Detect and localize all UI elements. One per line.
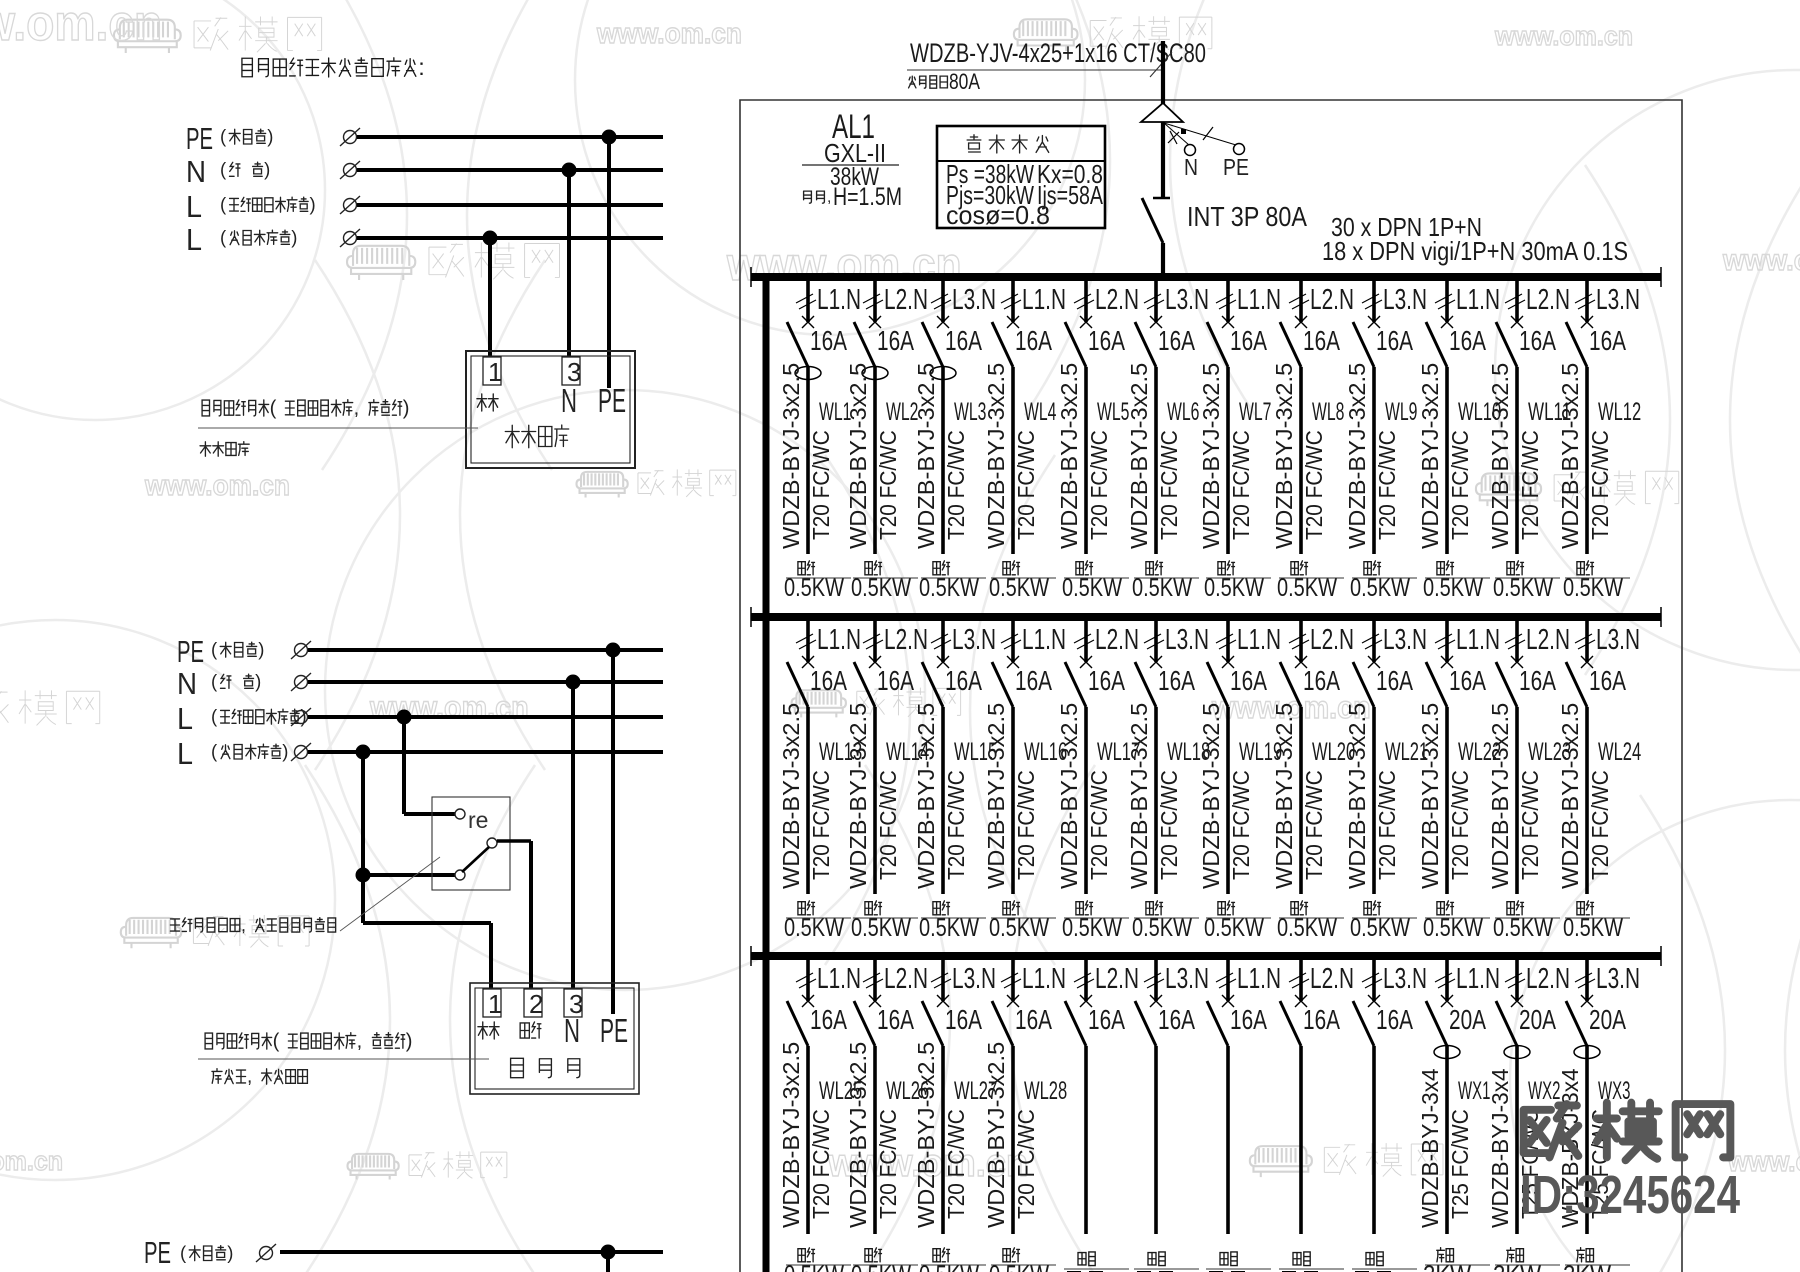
wire WL26 (873, 1046, 877, 1234)
branch WL9: stub + phase L3.N (1372, 280, 1376, 322)
breaker WL25 16A (802, 995, 814, 1007)
svg-text:WDZB-BYJ-3x2.5: WDZB-BYJ-3x2.5 (1271, 363, 1297, 549)
svg-text:,: , (357, 1030, 363, 1052)
load label 照明 0.5KW (1218, 902, 1225, 915)
svg-text:16A: 16A (810, 665, 847, 696)
svg-text:0.5KW: 0.5KW (989, 914, 1049, 942)
svg-text:2KW: 2KW (1493, 1261, 1541, 1272)
RCD ellipse WL2 (862, 367, 888, 380)
breaker WL24 16A (1581, 656, 1593, 668)
svg-text:T20 FC/WC: T20 FC/WC (875, 430, 901, 540)
svg-text:(: ( (220, 194, 227, 215)
svg-text:0.5KW: 0.5KW (989, 574, 1049, 602)
svg-text:0.5KW: 0.5KW (1132, 914, 1192, 942)
svg-text:): ) (309, 194, 315, 215)
svg-text:L2.N: L2.N (1310, 284, 1354, 316)
branch WL15: stub + phase L3.N (941, 620, 945, 662)
relay output wire (497, 839, 531, 843)
RCD ellipse WL3 (930, 367, 956, 380)
breaker spare 16A (1080, 995, 1092, 1007)
arrester triangle (1141, 103, 1183, 122)
svg-text:0.5KW: 0.5KW (1204, 574, 1264, 602)
svg-text:16A: 16A (945, 665, 982, 696)
load label 照明 0.5KW (865, 902, 872, 915)
main breaker lower wire (1161, 243, 1165, 279)
svg-text:T20 FC/WC: T20 FC/WC (808, 770, 834, 880)
spare label 备用 (1148, 1253, 1156, 1265)
breaker WL1 16A (802, 316, 814, 328)
svg-text:WDZB-BYJ-3x2.5: WDZB-BYJ-3x2.5 (1271, 703, 1297, 889)
L terminal symbol (340, 229, 360, 247)
main breaker top terminal (1153, 197, 1170, 200)
branch WL2: stub + phase L2.N (873, 280, 877, 322)
breaker spare 16A (1222, 995, 1234, 1007)
PE terminal symbol (340, 128, 360, 146)
breaker WL2 16A (869, 316, 881, 328)
L terminal symbol (291, 708, 311, 726)
svg-text:16A: 16A (1376, 325, 1413, 356)
wire spare (1154, 1046, 1158, 1234)
svg-text:): ) (267, 126, 273, 147)
L wire (357, 203, 663, 207)
load label 照明 0.5KW (1364, 562, 1371, 575)
wire WL15 (941, 707, 945, 894)
svg-text:16A: 16A (1449, 665, 1486, 696)
svg-text:16A: 16A (1589, 325, 1626, 356)
breaker WL6 16A (1150, 316, 1162, 328)
svg-text:www.om.cn: www.om.cn (369, 690, 529, 725)
svg-text:16A: 16A (1158, 1004, 1195, 1035)
svg-text:): ) (291, 227, 297, 248)
breaker WX1 20A (1441, 995, 1453, 1007)
svg-text:L1.N: L1.N (1022, 624, 1066, 656)
svg-text:16A: 16A (1376, 1004, 1413, 1035)
branch WL25: stub + phase L1.N (806, 959, 810, 1001)
svg-text:0.5KW: 0.5KW (1563, 914, 1623, 942)
svg-text:H=1.5M: H=1.5M (833, 183, 902, 211)
load label 照明 0.5KW (865, 562, 872, 575)
svg-text:16A: 16A (877, 665, 914, 696)
diagram1 junction dots (602, 130, 617, 145)
diagram2 junction dots (606, 643, 621, 658)
svg-text:0.5KW: 0.5KW (1493, 914, 1553, 942)
svg-text:16A: 16A (1449, 325, 1486, 356)
relay contact circles (455, 809, 497, 880)
svg-text:www.om.cn: www.om.cn (596, 18, 742, 50)
site logo 欧模网 (1524, 1103, 1731, 1161)
svg-text:16A: 16A (1015, 325, 1052, 356)
wire WL2 (873, 367, 877, 554)
relay box re (432, 797, 510, 890)
svg-text:L2.N: L2.N (1310, 624, 1354, 656)
wire WL23 (1515, 707, 1519, 894)
branch spare: stub + phase L1.N (1226, 959, 1230, 1001)
N wire (357, 168, 663, 172)
branch WL6: stub + phase L3.N (1154, 280, 1158, 322)
svg-text:N: N (564, 1012, 580, 1049)
terminal 1 (483, 357, 501, 385)
svg-text:T20 FC/WC: T20 FC/WC (1447, 430, 1473, 540)
load label 照明 0.5KW (865, 1249, 872, 1262)
svg-text:L1.N: L1.N (1456, 284, 1500, 316)
svg-text:16A: 16A (1589, 665, 1626, 696)
svg-text:PE: PE (186, 121, 213, 156)
breaker WX2 20A (1511, 995, 1523, 1007)
PE terminal circle (1234, 144, 1245, 155)
svg-text:T20 FC/WC: T20 FC/WC (943, 770, 969, 880)
breaker WL7 16A (1222, 316, 1234, 328)
wire WX1 (1445, 1046, 1449, 1234)
breaker WL12 16A (1581, 316, 1593, 328)
svg-text:0.5KW: 0.5KW (851, 914, 911, 942)
branch WL14: stub + phase L2.N (873, 620, 877, 662)
panel border (740, 100, 1682, 1272)
svg-text:L2.N: L2.N (1095, 963, 1139, 995)
label 控制 (520, 1023, 529, 1038)
branch WX1: stub + phase L1.N (1445, 959, 1449, 1001)
svg-text:0.5KW: 0.5KW (1423, 914, 1483, 942)
svg-text:L2.N: L2.N (1526, 284, 1570, 316)
wire WL17 (1084, 707, 1088, 894)
svg-text::: : (418, 54, 425, 80)
svg-text:): ) (264, 159, 270, 180)
svg-text:T20 FC/WC: T20 FC/WC (808, 1109, 834, 1219)
branch WL16: stub + phase L1.N (1011, 620, 1015, 662)
svg-text:0.5KW: 0.5KW (851, 574, 911, 602)
load calc box 负荷计算 (937, 126, 1105, 228)
svg-text:(: ( (211, 741, 218, 762)
wire WL19 (1226, 707, 1230, 894)
svg-text:www.om.cn: www.om.cn (144, 470, 290, 502)
load label 照明 0.5KW (1003, 1249, 1010, 1262)
svg-text:16A: 16A (1015, 1004, 1052, 1035)
diagram1 drop wires (607, 137, 611, 388)
svg-text:0.5KW: 0.5KW (1350, 574, 1410, 602)
svg-text:WDZB-BYJ-3x4: WDZB-BYJ-3x4 (1417, 1068, 1443, 1228)
breaker WX3 20A (1581, 995, 1593, 1007)
svg-text:0.5KW: 0.5KW (1132, 574, 1192, 602)
relay switch blade (462, 847, 489, 872)
svg-text:T20 FC/WC: T20 FC/WC (1156, 430, 1182, 540)
breaker spare 16A (1368, 995, 1380, 1007)
svg-text:L2.N: L2.N (884, 963, 928, 995)
svg-text:INT 3P 80A: INT 3P 80A (1187, 201, 1307, 232)
branch WL26: stub + phase L2.N (873, 959, 877, 1001)
svg-text:T20 FC/WC: T20 FC/WC (1587, 430, 1613, 540)
terminal 3 (562, 357, 580, 385)
load label 插座 2KW (1437, 1248, 1445, 1262)
svg-text:L1.N: L1.N (817, 624, 861, 656)
svg-text:2KW: 2KW (1563, 1261, 1611, 1272)
svg-text:T25 FC/WC: T25 FC/WC (1447, 1109, 1473, 1219)
wire WL1 (806, 367, 810, 554)
svg-text:(: ( (270, 397, 277, 419)
svg-text:WL6: WL6 (1167, 398, 1199, 426)
load label 照明 0.5KW (1146, 902, 1153, 915)
N terminal circle (1185, 145, 1196, 156)
svg-text:WL4: WL4 (1024, 398, 1056, 426)
svg-text:WDZB-BYJ-3x2.5: WDZB-BYJ-3x2.5 (913, 703, 939, 889)
branch WL1: stub + phase L1.N (806, 280, 810, 322)
riser wire (763, 277, 770, 1272)
breaker WL22 16A (1441, 656, 1453, 668)
svg-text:WDZB-BYJ-3x2.5: WDZB-BYJ-3x2.5 (983, 1042, 1009, 1228)
mounting 暗装,H=1.5M (804, 191, 812, 203)
svg-text:(: ( (180, 1242, 187, 1263)
svg-text:WDZB-BYJ-3x2.5: WDZB-BYJ-3x2.5 (1557, 703, 1583, 889)
diagram2 drop wires (611, 650, 615, 1014)
svg-text:0.5KW: 0.5KW (1062, 574, 1122, 602)
svg-text:0.5KW: 0.5KW (1204, 914, 1264, 942)
annotation 应急照明灯具(自带备用电池,三线制) (205, 1033, 212, 1049)
svg-text:T20 FC/WC: T20 FC/WC (1447, 770, 1473, 880)
RCD ellipse WX1 (1434, 1046, 1460, 1059)
label 充电 (478, 1022, 488, 1039)
N wire (308, 680, 663, 684)
label 前级整定80A (909, 76, 916, 88)
wire WL14 (873, 707, 877, 894)
svg-text:WDZB-BYJ-3x2.5: WDZB-BYJ-3x2.5 (778, 1042, 804, 1228)
N terminal symbol (291, 673, 311, 691)
wire spare (1084, 1046, 1088, 1234)
spare label 备用 (1366, 1253, 1374, 1265)
svg-text:T20 FC/WC: T20 FC/WC (1228, 430, 1254, 540)
svg-text:16A: 16A (877, 325, 914, 356)
wire WL28 (1011, 1046, 1015, 1234)
svg-text:L1.N: L1.N (1022, 284, 1066, 316)
breaker WL17 16A (1080, 656, 1092, 668)
svg-text:0.5KW: 0.5KW (1493, 574, 1553, 602)
svg-text:): ) (258, 639, 264, 660)
branch WL20: stub + phase L2.N (1299, 620, 1303, 662)
svg-text:L1.N: L1.N (817, 284, 861, 316)
L wire (308, 715, 663, 719)
svg-text:16A: 16A (1303, 1004, 1340, 1035)
wire WL8 (1299, 367, 1303, 554)
branch WL7: stub + phase L1.N (1226, 280, 1230, 322)
load label 照明 0.5KW (798, 1249, 805, 1262)
RCD ellipse WX2 (1504, 1046, 1530, 1059)
svg-text:re: re (468, 807, 488, 833)
svg-text:L2.N: L2.N (1310, 963, 1354, 995)
svg-text:WDZB-BYJ-3x2.5: WDZB-BYJ-3x2.5 (1056, 363, 1082, 549)
svg-text:T20 FC/WC: T20 FC/WC (1301, 430, 1327, 540)
svg-text:WL28: WL28 (1024, 1077, 1067, 1105)
svg-text:WDZB-BYJ-3x2.5: WDZB-BYJ-3x2.5 (845, 1042, 871, 1228)
svg-text:0.5KW: 0.5KW (851, 1261, 911, 1272)
svg-text:L3.N: L3.N (1165, 284, 1209, 316)
main breaker INT 3P 80A blade (1142, 198, 1163, 243)
svg-text:L3.N: L3.N (1383, 284, 1427, 316)
svg-text:L2.N: L2.N (1526, 624, 1570, 656)
svg-text:WDZB-BYJ-3x2.5: WDZB-BYJ-3x2.5 (1056, 703, 1082, 889)
wire spare (1226, 1046, 1230, 1234)
svg-text:WDZB-BYJ-3x2.5: WDZB-BYJ-3x2.5 (1487, 703, 1513, 889)
svg-text:L: L (177, 736, 193, 771)
breaker WL23 16A (1511, 656, 1523, 668)
svg-text:WDZB-BYJ-3x2.5: WDZB-BYJ-3x2.5 (1487, 363, 1513, 549)
svg-text:16A: 16A (1376, 665, 1413, 696)
wire WL13 (806, 707, 810, 894)
svg-text:L1.N: L1.N (1237, 624, 1281, 656)
svg-text:16A: 16A (877, 1004, 914, 1035)
svg-text:(: ( (211, 671, 218, 692)
svg-text:WDZB-BYJ-3x2.5: WDZB-BYJ-3x2.5 (1417, 703, 1443, 889)
load label 照明 0.5KW (1146, 562, 1153, 575)
svg-text:L3.N: L3.N (1165, 624, 1209, 656)
load label 照明 0.5KW (933, 1249, 940, 1262)
svg-text:ID:3245624: ID:3245624 (1520, 1165, 1740, 1225)
breaker WL16 16A (1007, 656, 1019, 668)
incoming main wire (1161, 41, 1165, 198)
svg-text:(: ( (273, 1030, 280, 1052)
branch WL27: stub + phase L3.N (941, 959, 945, 1001)
breaker WL9 16A (1368, 316, 1380, 328)
svg-text:T20 FC/WC: T20 FC/WC (1587, 770, 1613, 880)
branch WL17: stub + phase L2.N (1084, 620, 1088, 662)
branch WL21: stub + phase L3.N (1372, 620, 1376, 662)
svg-text:2KW: 2KW (1423, 1261, 1471, 1272)
svg-text:T20 FC/WC: T20 FC/WC (1517, 430, 1543, 540)
svg-text:(: ( (220, 227, 227, 248)
title 应急照明回路接线图如下: (242, 58, 252, 76)
svg-text:N: N (186, 154, 206, 189)
svg-text:1: 1 (488, 357, 502, 387)
wire spare (1299, 1046, 1303, 1234)
breaker WL4 16A (1007, 316, 1019, 328)
svg-text:0.5KW: 0.5KW (1062, 914, 1122, 942)
svg-text:): ) (227, 1242, 233, 1263)
svg-text:L3.N: L3.N (1596, 963, 1640, 995)
svg-text:20A: 20A (1519, 1004, 1556, 1035)
bus bar row 1 (751, 273, 1661, 281)
wire WL4 (1011, 367, 1015, 554)
svg-text:(: ( (220, 126, 227, 147)
svg-text:T20 FC/WC: T20 FC/WC (808, 430, 834, 540)
svg-text:1: 1 (488, 989, 502, 1019)
svg-text:L: L (177, 701, 193, 736)
RCD ellipse WX3 (1574, 1046, 1600, 1059)
load label 照明 0.5KW (798, 562, 805, 575)
bus bar row 2 (751, 613, 1661, 621)
svg-text:T20 FC/WC: T20 FC/WC (1301, 770, 1327, 880)
load label 照明 0.5KW (1003, 902, 1010, 915)
wire WX2 (1515, 1046, 1519, 1234)
load label 插座 2KW (1507, 1248, 1515, 1262)
wire WL7 (1226, 367, 1230, 554)
svg-text:): ) (403, 397, 410, 419)
svg-text:PE: PE (598, 382, 626, 419)
svg-text:WDZB-BYJ-3x2.5: WDZB-BYJ-3x2.5 (1557, 363, 1583, 549)
svg-text:L3.N: L3.N (1383, 963, 1427, 995)
svg-text:WL8: WL8 (1312, 398, 1344, 426)
box caption 应急灯 (511, 1058, 524, 1077)
branch WL13: stub + phase L1.N (806, 620, 810, 662)
load label 照明 0.5KW (1218, 562, 1225, 575)
wire WL11 (1515, 367, 1519, 554)
svg-text:WX1: WX1 (1458, 1077, 1490, 1105)
wire WL6 (1154, 367, 1158, 554)
N terminal symbol (340, 161, 360, 179)
svg-text:T20 FC/WC: T20 FC/WC (1013, 1109, 1039, 1219)
svg-text:WL12: WL12 (1598, 398, 1641, 426)
load label 照明 0.5KW (1076, 902, 1083, 915)
svg-text:L2.N: L2.N (1095, 624, 1139, 656)
N PE tap lines (1164, 123, 1189, 145)
spare label 备用 (1293, 1253, 1301, 1265)
breaker WL5 16A (1080, 316, 1092, 328)
branch WL23: stub + phase L2.N (1515, 620, 1519, 662)
svg-text:WDZB-BYJ-3x4: WDZB-BYJ-3x4 (1487, 1068, 1513, 1228)
svg-text:L: L (186, 222, 202, 257)
svg-text:(: ( (220, 159, 227, 180)
branch WL5: stub + phase L2.N (1084, 280, 1088, 322)
annotation 应急照明灯具(自带备用电池,两线制) (202, 400, 209, 416)
svg-text:N: N (177, 666, 197, 701)
diagram3 drop wire (606, 1252, 610, 1272)
breaker WL15 16A (937, 656, 949, 668)
svg-text:WL7: WL7 (1239, 398, 1271, 426)
breaker WL3 16A (937, 316, 949, 328)
svg-text:0.5KW: 0.5KW (1563, 574, 1623, 602)
branch WL28: stub + phase L1.N (1011, 959, 1015, 1001)
svg-text:L2.N: L2.N (884, 624, 928, 656)
svg-text:www.om.cn: www.om.cn (1494, 21, 1633, 51)
svg-text:L3.N: L3.N (952, 963, 996, 995)
load label 照明 0.5KW (1076, 562, 1083, 575)
breaker spare 16A (1295, 995, 1307, 1007)
svg-text:T20 FC/WC: T20 FC/WC (1086, 430, 1112, 540)
load label 照明 0.5KW (1364, 902, 1371, 915)
svg-text:T20 FC/WC: T20 FC/WC (943, 1109, 969, 1219)
load label 照明 0.5KW (1291, 562, 1298, 575)
svg-text:T20 FC/WC: T20 FC/WC (1374, 770, 1400, 880)
svg-text:WDZB-BYJ-3x2.5: WDZB-BYJ-3x2.5 (778, 363, 804, 549)
wire WL22 (1445, 707, 1449, 894)
svg-text:cosø=0.8: cosø=0.8 (946, 200, 1050, 230)
svg-text:16A: 16A (810, 1004, 847, 1035)
svg-text:): ) (406, 1030, 413, 1052)
svg-text:0.5KW: 0.5KW (784, 1261, 844, 1272)
wire spare (1372, 1046, 1376, 1234)
svg-text:L1.N: L1.N (1022, 963, 1066, 995)
svg-text:16A: 16A (1015, 665, 1052, 696)
svg-text:N: N (1184, 154, 1198, 180)
svg-text:L2.N: L2.N (1526, 963, 1570, 995)
svg-text:WL5: WL5 (1097, 398, 1129, 426)
branch WL4: stub + phase L1.N (1011, 280, 1015, 322)
svg-text:WDZB-BYJ-3x2.5: WDZB-BYJ-3x2.5 (845, 703, 871, 889)
svg-text:WDZB-BYJ-3x2.5: WDZB-BYJ-3x2.5 (913, 1042, 939, 1228)
branch WL19: stub + phase L1.N (1226, 620, 1230, 662)
svg-text:L3.N: L3.N (1165, 963, 1209, 995)
svg-text:16A: 16A (1230, 665, 1267, 696)
branch WL22: stub + phase L1.N (1445, 620, 1449, 662)
branch spare: stub + phase L3.N (1154, 959, 1158, 1001)
N tap cross (1168, 132, 1179, 143)
wire WX3 (1585, 1046, 1589, 1234)
svg-text:PE: PE (177, 634, 204, 669)
breaker WL18 16A (1150, 656, 1162, 668)
svg-text:T20 FC/WC: T20 FC/WC (1374, 430, 1400, 540)
svg-text:,: , (354, 397, 360, 419)
wire WL21 (1372, 707, 1376, 894)
svg-text:T20 FC/WC: T20 FC/WC (1013, 430, 1039, 540)
breaker WL13 16A (802, 656, 814, 668)
load label 照明 0.5KW (1291, 902, 1298, 915)
wire WL12 (1585, 367, 1589, 554)
svg-text:www.om.cn: www.om.cn (0, 1146, 63, 1176)
